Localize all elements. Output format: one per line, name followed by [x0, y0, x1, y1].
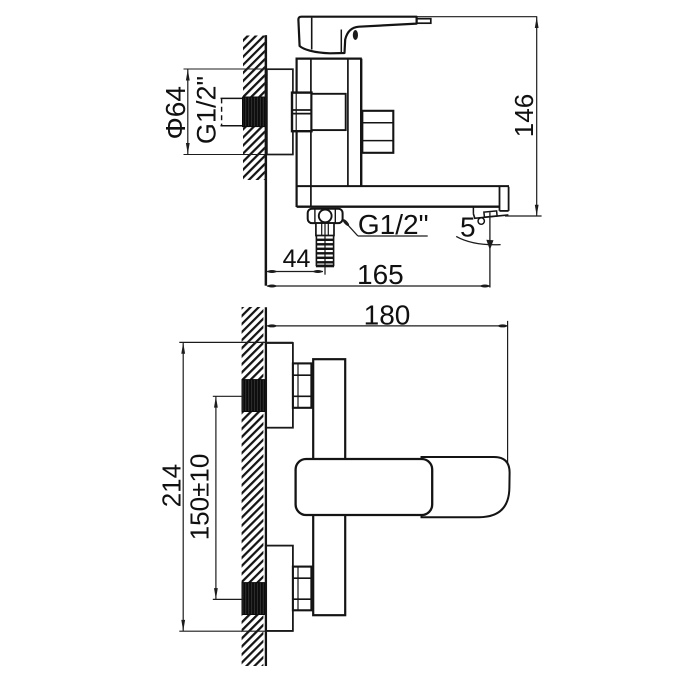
svg-text:214: 214	[157, 464, 187, 507]
handle inner line	[311, 18, 313, 50]
dimension ext line 146 top	[417, 16, 538, 18]
dimension ext line phi64 top	[184, 68, 293, 70]
handle lever (top view)	[298, 17, 416, 54]
svg-text:44: 44	[283, 245, 311, 273]
dimension 180	[267, 300, 508, 331]
svg-text:G1/2": G1/2"	[192, 76, 222, 144]
faucet body (top view)	[296, 58, 362, 207]
upper threaded wall connector (bottom view, black)	[242, 380, 265, 412]
dimension ext line phi64 bottom	[184, 154, 293, 156]
hose stub	[316, 223, 334, 235]
cartridge box (top view)	[312, 94, 346, 130]
hose stub threads	[316, 223, 334, 275]
svg-text:G1/2": G1/2"	[358, 209, 429, 240]
hose coupling nut (top view)	[308, 209, 343, 223]
lower escutcheon (bottom view)	[266, 546, 293, 631]
wall hatch (top view)	[243, 36, 265, 181]
dimension ext line 150 bottom	[213, 598, 244, 600]
dimension ext line 180 right	[507, 321, 509, 465]
wall face line again over flange	[265, 35, 267, 285]
upper hex nut (bottom view)	[293, 363, 312, 407]
flange escutcheon (top view)	[267, 69, 293, 154]
leader line for G1/2 label	[342, 218, 428, 236]
svg-text:165: 165	[357, 259, 404, 290]
spout (top view)	[297, 186, 509, 211]
handle neck line	[340, 30, 342, 53]
handle lever (bottom view)	[422, 457, 510, 517]
hex nut at body left (top view)	[292, 93, 312, 132]
lower threaded wall connector (bottom view, black)	[242, 583, 265, 615]
right protrusion nut (top view)	[362, 111, 393, 153]
dimension ext line 214 top	[179, 341, 293, 343]
lower hex nut (bottom view)	[293, 567, 312, 611]
lever tip box	[417, 19, 431, 24]
svg-text:180: 180	[364, 300, 411, 331]
svg-text:Φ64: Φ64	[160, 86, 191, 139]
wall face line (top view)	[265, 35, 267, 285]
dimension line phi64	[186, 69, 190, 154]
angle reference line (vertical at spout outlet)	[489, 212, 491, 287]
wall face line (bottom view)	[265, 307, 267, 666]
dimension 150+-10	[185, 396, 218, 599]
wall hatch (bottom view)	[242, 307, 264, 666]
dimension ext line 150 top	[213, 395, 244, 397]
svg-text:5°: 5°	[460, 212, 487, 243]
faucet body bar (bottom view)	[313, 359, 345, 615]
dimension ext line 214 bottom	[179, 630, 293, 632]
pipe stub left of wall	[221, 98, 244, 125]
dimension 146	[509, 17, 539, 216]
svg-text:146: 146	[509, 94, 539, 137]
svg-text:150±10: 150±10	[185, 454, 215, 541]
dimension 44	[267, 245, 323, 273]
dimension ext line aerator bottom	[505, 215, 542, 217]
angle arc 5 deg	[456, 236, 500, 244]
threaded wall connector (top view, black)	[243, 97, 267, 127]
handle pivot pin	[353, 30, 358, 40]
handle base (bottom view)	[296, 459, 433, 515]
angle arrow on reference line	[486, 240, 493, 250]
dimension 214	[157, 342, 187, 631]
dimension 165	[267, 259, 490, 290]
upper escutcheon (bottom view)	[266, 343, 293, 428]
aerator under spout tip	[473, 207, 508, 219]
